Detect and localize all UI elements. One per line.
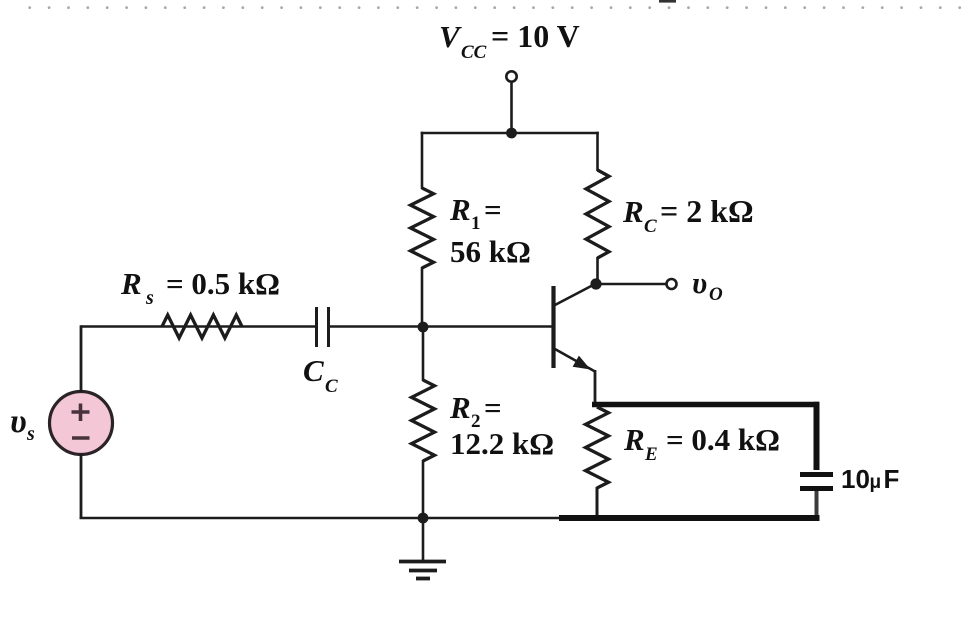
svg-text:υ: υ [692,265,707,300]
ground [399,562,446,579]
svg-text:= 0.4 kΩ: = 0.4 kΩ [666,422,780,457]
svg-text:F: F [884,464,900,494]
svg-text:C: C [303,353,324,388]
label Rs = 0.5 kOhm [120,266,280,309]
svg-text:= 2 kΩ: = 2 kΩ [660,193,754,229]
svg-text:μ: μ [870,472,882,493]
wire bottom rail [80,517,562,520]
svg-text:C: C [644,216,657,237]
svg-text:12.2 kΩ: 12.2 kΩ [450,426,554,461]
label R1 = 56 kOhm [449,192,531,269]
label RC = 2 kOhm [622,193,754,237]
capacitor CE 10uF plates [800,475,833,489]
wire R2 bottom lead [422,460,425,518]
svg-text:υ: υ [10,403,27,440]
wire thick bypass top [592,402,819,408]
svg-text:1: 1 [471,213,481,234]
svg-text:C: C [325,376,338,397]
grid dots row [28,6,961,9]
node bottom junction [418,513,429,524]
svg-text:s: s [26,423,35,445]
node collector junction [590,278,601,289]
wire ground stub [422,518,425,561]
svg-text:O: O [709,284,723,305]
svg-text:56 kΩ: 56 kΩ [450,234,531,269]
label Cc [303,353,338,397]
label R2 = 12.2 kOhm [449,390,554,461]
svg-text:s: s [145,287,154,309]
transistor emitter line [554,349,595,372]
top UI bar fragment [659,0,676,3]
wire source bottom lead [80,454,83,519]
label vO [692,265,723,305]
resistor RE [586,407,609,488]
transistor collector line [554,284,596,306]
wire Cc to transistor base [329,325,554,328]
minus sign [72,436,90,440]
wire Vcc stub [510,82,513,133]
svg-text:CC: CC [461,42,487,63]
wire R1 bottom lead [421,267,424,327]
wire source top lead [80,325,83,392]
svg-text:R: R [449,390,471,425]
Vcc terminal circle [506,71,516,81]
wire source to Cc [81,325,316,328]
label RE = 0.4 kOhm [623,422,780,465]
label vs [10,403,35,445]
node base junction [418,322,429,333]
voltage source vs [50,392,113,455]
wire RC top lead [596,132,599,171]
svg-text:=: = [484,192,502,227]
svg-text:R: R [449,192,471,227]
transistor emitter arrowhead [573,356,591,370]
wire thick right vertical [814,402,820,470]
svg-text:E: E [644,444,658,465]
wire top rail [421,132,599,135]
capacitor Cc [315,307,318,347]
label Vcc = 10 V [439,18,580,63]
svg-text:R: R [622,194,644,229]
output terminal circle [667,279,677,289]
wire thick bottom rail [559,515,820,521]
svg-text:V: V [439,19,462,54]
wire emitter vertical [594,370,597,404]
wire R2 top lead [422,327,425,381]
wire output lead [596,283,667,286]
resistor Rs [162,315,242,338]
svg-text:R: R [623,422,645,457]
svg-text:=: = [484,390,502,425]
node Vcc rail junction [506,128,517,139]
svg-text:R: R [120,266,142,301]
svg-text:= 10 V: = 10 V [491,18,580,54]
resistor RC [586,170,609,258]
transistor Q1 base bar [551,286,555,368]
plus sign [72,404,90,422]
wire R1 top lead [421,132,424,189]
wire below CE [815,491,819,518]
resistor R1 [411,188,434,268]
svg-text:= 0.5 kΩ: = 0.5 kΩ [166,266,280,301]
resistor R2 [412,380,435,461]
label 10uF [841,464,899,494]
wire RE bottom lead [596,487,599,518]
svg-text:10: 10 [841,464,870,494]
wire RC bottom lead [596,257,599,284]
